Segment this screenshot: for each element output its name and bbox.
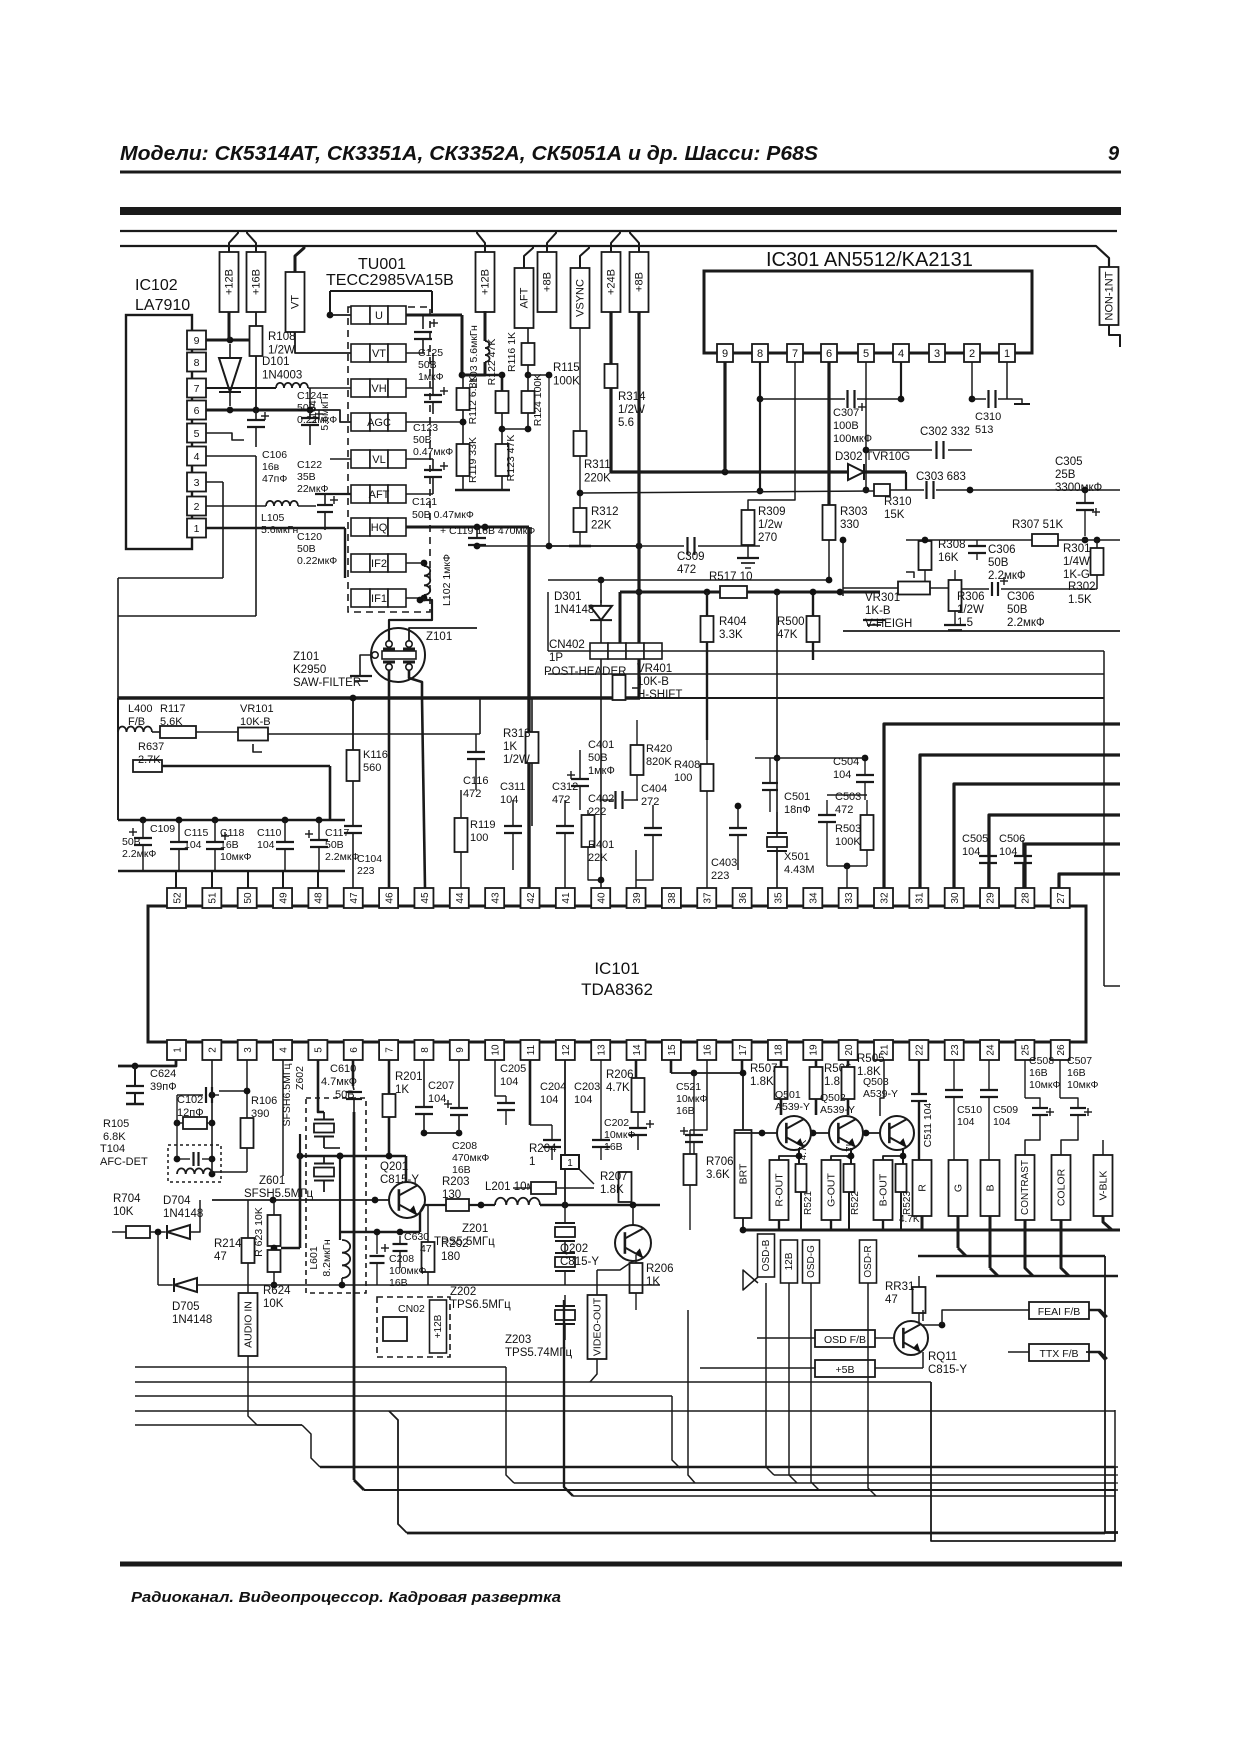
svg-text:1/2W: 1/2W <box>503 754 530 766</box>
svg-text:LA7910: LA7910 <box>135 297 190 314</box>
wire R307 line <box>906 539 1032 541</box>
resistor R706 <box>684 1154 697 1185</box>
IC101 bottom pin 24 <box>980 1040 999 1060</box>
wire osd row <box>742 1229 1118 1232</box>
wire IC102 pin2 <box>206 505 266 507</box>
svg-text:35B: 35B <box>297 471 316 483</box>
svg-text:C104: C104 <box>357 853 382 865</box>
wire AGC row out <box>406 421 463 423</box>
wire IC301 pin7 drop <box>748 362 795 510</box>
IC101 bottom pin 18 <box>768 1040 787 1060</box>
svg-text:R123 47K: R123 47K <box>505 435 517 482</box>
svg-text:C122: C122 <box>297 459 322 471</box>
svg-text:C510: C510 <box>957 1104 982 1116</box>
svg-text:1/2w: 1/2w <box>758 519 783 531</box>
svg-text:R704: R704 <box>113 1193 141 1205</box>
svg-text:R637: R637 <box>138 741 164 753</box>
net OSD-R <box>860 1240 877 1283</box>
capacitor C521 <box>693 1073 695 1135</box>
capacitor C203 <box>600 1060 602 1140</box>
svg-text:513: 513 <box>975 424 993 436</box>
IC101 bottom pin 7 <box>379 1040 398 1060</box>
wire R517 rail <box>620 591 720 594</box>
pot VR401 <box>613 675 626 700</box>
IC101 bottom pin 6 <box>344 1040 363 1060</box>
svg-text:104: 104 <box>500 1076 518 1088</box>
svg-text:6: 6 <box>826 348 832 360</box>
resistor R105 <box>183 1117 207 1129</box>
inductor L104 <box>276 383 308 388</box>
svg-text:BRT: BRT <box>737 1163 749 1184</box>
svg-text:47: 47 <box>420 1243 432 1255</box>
wire IC102 pin7 <box>206 387 276 389</box>
resistor R401 <box>582 815 595 847</box>
wire C208 rail <box>424 1132 459 1134</box>
svg-text:2: 2 <box>969 348 975 360</box>
wire riser AFT <box>524 246 533 268</box>
IC101 top pin 40 <box>591 888 610 908</box>
svg-text:4: 4 <box>898 348 904 360</box>
svg-text:C307: C307 <box>833 407 859 419</box>
resistor R122 <box>496 391 509 413</box>
wire tuner thick down <box>527 527 530 888</box>
net +5B <box>815 1360 875 1377</box>
svg-text:10K-B: 10K-B <box>240 716 271 728</box>
wire RQ11 out <box>922 1352 924 1368</box>
IC101 top pin 27 <box>1051 888 1070 908</box>
svg-text:3: 3 <box>194 477 200 489</box>
capacitor C311 <box>512 800 514 826</box>
svg-text:10мкФ: 10мкФ <box>604 1129 635 1141</box>
wire G jog <box>958 1248 966 1256</box>
wire staircase 3 <box>954 784 1120 888</box>
crystal Z602a <box>314 1119 334 1121</box>
svg-text:C309: C309 <box>677 551 705 563</box>
svg-text:1: 1 <box>172 1047 183 1053</box>
svg-text:IF2: IF2 <box>371 558 387 570</box>
svg-text:33: 33 <box>844 892 855 904</box>
transistor RQ11 <box>894 1321 928 1355</box>
wire bundle v2 <box>564 1300 573 1496</box>
wire Z101 down b <box>409 670 422 698</box>
capacitor C504 <box>864 758 866 775</box>
wire pin5 drop <box>318 1060 324 1112</box>
IC101 top pin 42 <box>521 888 540 908</box>
IC101 top pin 30 <box>945 888 964 908</box>
IC101 top pin 52 <box>167 888 186 908</box>
wire C119 rail <box>477 545 640 547</box>
svg-text:104: 104 <box>999 846 1017 858</box>
svg-text:R404: R404 <box>719 616 747 628</box>
svg-text:17: 17 <box>738 1044 749 1056</box>
svg-text:OSD F/B: OSD F/B <box>824 1334 866 1346</box>
svg-text:SFSH5.5МГц: SFSH5.5МГц <box>244 1188 313 1200</box>
capacitor C509 <box>988 1060 990 1090</box>
svg-text:FEAI F/B: FEAI F/B <box>1038 1306 1081 1318</box>
resistor R507 <box>775 1067 788 1099</box>
resistor R408 <box>701 764 714 791</box>
capacitor C624 <box>134 1066 136 1086</box>
wire R203-L201 <box>469 1204 495 1206</box>
svg-text:R207: R207 <box>600 1171 628 1183</box>
filter Z101 <box>371 628 425 682</box>
svg-text:AUDIO IN: AUDIO IN <box>242 1301 254 1348</box>
svg-text:+12B: +12B <box>224 269 236 295</box>
svg-text:1: 1 <box>194 523 200 535</box>
svg-text:10мкФ: 10мкФ <box>220 851 251 863</box>
svg-text:A539-Y: A539-Y <box>820 1104 855 1116</box>
svg-text:50B: 50B <box>1007 604 1028 616</box>
svg-text:1.8K: 1.8K <box>750 1076 774 1088</box>
wire AFT row out <box>406 493 433 495</box>
svg-text:R314: R314 <box>618 391 646 403</box>
svg-text:50B: 50B <box>122 836 141 848</box>
wire drop x672 <box>672 1396 680 1468</box>
bottom thick rule <box>120 1562 1122 1567</box>
svg-text:2: 2 <box>194 501 200 513</box>
capacitor C508 <box>1024 1060 1026 1098</box>
IC101 top pin 28 <box>1015 888 1034 908</box>
svg-text:OSD-G: OSD-G <box>806 1245 817 1278</box>
IC102 pin 9 <box>187 331 206 350</box>
svg-text:45: 45 <box>420 892 431 904</box>
capacitor C102 <box>177 1094 203 1096</box>
resistor R207 <box>619 1172 632 1202</box>
wire pin6 drop <box>352 1060 355 1086</box>
svg-text:1P: 1P <box>549 652 563 664</box>
IC101 top pin 49 <box>273 888 292 908</box>
svg-text:4: 4 <box>278 1047 289 1053</box>
svg-text:C521: C521 <box>676 1081 701 1093</box>
IC301 pin 8 <box>752 344 768 362</box>
svg-text:OSD-B: OSD-B <box>761 1239 772 1271</box>
svg-text:X501: X501 <box>784 851 810 863</box>
IC101 top pin 35 <box>768 888 787 908</box>
capacitor C503 <box>826 800 828 815</box>
resistor R119-33K <box>457 444 470 476</box>
IC101 bottom pin 17 <box>733 1040 752 1060</box>
wire pin13 drop <box>635 1060 638 1078</box>
svg-text:C123: C123 <box>413 422 438 434</box>
wire CN402 drop pin40 <box>600 659 602 888</box>
wire 12B drop <box>789 1283 797 1483</box>
wire R637 right <box>162 765 330 768</box>
net +12B cn02 <box>430 1300 447 1353</box>
svg-text:5: 5 <box>194 428 200 440</box>
tuner port VH <box>351 379 370 397</box>
svg-text:272: 272 <box>641 796 659 808</box>
svg-text:C610: C610 <box>330 1063 356 1075</box>
resistor R311 <box>574 431 587 456</box>
svg-text:50: 50 <box>243 892 254 904</box>
capacitor C208b <box>376 1232 378 1254</box>
svg-text:472: 472 <box>835 804 853 816</box>
svg-text:28: 28 <box>1021 892 1032 904</box>
IC101 bottom pin 10 <box>485 1040 504 1060</box>
svg-text:R522: R522 <box>850 1191 861 1215</box>
resistor R637 <box>133 760 162 772</box>
resistor R214 <box>242 1238 255 1263</box>
wire D301 rail <box>548 579 829 581</box>
IC101 bottom pin 2 <box>202 1040 221 1060</box>
wire pin42 col <box>564 870 566 888</box>
IC101 bottom pin 4 <box>273 1040 292 1060</box>
resistor R506 <box>810 1067 823 1099</box>
svg-text:8: 8 <box>194 357 200 369</box>
wire bundle h4 <box>135 1410 1115 1412</box>
resistor R517 <box>720 586 747 598</box>
capacitor C117 <box>318 820 320 840</box>
svg-text:3: 3 <box>243 1047 254 1053</box>
wire riser +12B tuner <box>477 231 485 252</box>
svg-text:R116 1K: R116 1K <box>506 332 518 372</box>
svg-text:C121: C121 <box>412 496 437 508</box>
svg-text:VT: VT <box>290 295 302 309</box>
svg-text:+5B: +5B <box>836 1364 855 1376</box>
wire Z101 gnd <box>360 655 372 676</box>
svg-text:Z201: Z201 <box>462 1223 488 1235</box>
svg-text:D705: D705 <box>172 1301 200 1313</box>
svg-text:13: 13 <box>597 1044 608 1056</box>
wire riser +16B <box>247 231 256 252</box>
svg-text:2.2мкФ: 2.2мкФ <box>988 570 1026 582</box>
IC102 pin 7 <box>187 379 206 398</box>
crystal Z201 <box>555 1222 575 1224</box>
svg-text:104: 104 <box>962 846 980 858</box>
resistor R301 <box>1091 548 1104 575</box>
svg-text:B: B <box>984 1184 996 1191</box>
header rule <box>120 171 1121 174</box>
wire riser +8B <box>547 231 556 252</box>
svg-text:50B: 50B <box>297 402 316 414</box>
supply +24B <box>602 252 621 312</box>
wire riser VSYNC <box>580 246 589 268</box>
wire loop y1541 <box>931 1382 1115 1541</box>
svg-text:7: 7 <box>792 348 798 360</box>
capacitor C104 <box>352 781 354 826</box>
wire IC102 pin3 <box>206 481 223 483</box>
svg-text:1: 1 <box>1004 348 1010 360</box>
svg-text:6.8K: 6.8K <box>103 1131 126 1143</box>
diode D705 <box>158 1284 172 1286</box>
wire IC102 pin6 <box>206 409 310 412</box>
svg-text:2.2мкФ: 2.2мкФ <box>122 848 156 860</box>
svg-text:560: 560 <box>363 762 381 774</box>
svg-text:8.2мкГн: 8.2мкГн <box>321 1239 333 1277</box>
svg-text:9: 9 <box>722 348 728 360</box>
svg-text:C102: C102 <box>177 1094 203 1106</box>
svg-text:29: 29 <box>985 892 996 904</box>
wire COLOR jog <box>1061 1220 1069 1276</box>
IC102 pin 6 <box>187 401 206 420</box>
svg-text:C511 104: C511 104 <box>922 1102 934 1147</box>
svg-text:330: 330 <box>840 519 859 531</box>
op-amp IC301 <box>704 271 1032 353</box>
IC101 bottom pin 22 <box>909 1040 928 1060</box>
wire R106 bottom <box>212 1171 247 1173</box>
svg-text:100B: 100B <box>833 420 859 432</box>
resistor R404 <box>701 616 714 642</box>
svg-text:C208: C208 <box>452 1140 477 1152</box>
net VIDEO-OUT <box>588 1295 607 1359</box>
resistor R314 <box>605 364 618 388</box>
IC102 pin 4 <box>187 447 206 466</box>
svg-text:4.43M: 4.43M <box>784 864 815 876</box>
resistor R704 <box>126 1226 150 1238</box>
capacitor C630 <box>399 1236 401 1244</box>
wire audio drop <box>248 1356 302 1425</box>
svg-text:104: 104 <box>500 794 518 806</box>
svg-text:VR101: VR101 <box>240 703 274 715</box>
wire Q503 out <box>883 1156 903 1160</box>
wire HQ row out <box>406 526 529 529</box>
svg-text:C204: C204 <box>540 1081 566 1093</box>
svg-text:SFSH6.5МГц: SFSH6.5МГц <box>281 1063 293 1126</box>
net TTX F/B <box>1029 1344 1089 1361</box>
wire line 1256 <box>918 1255 1105 1258</box>
svg-text:8: 8 <box>757 348 763 360</box>
net FEAI F/B <box>1029 1302 1089 1319</box>
IC301 pin 4 <box>893 344 909 362</box>
wire caps bottom rail <box>118 870 345 873</box>
resistor R500 <box>807 616 820 642</box>
wire NON-1NT stub <box>1109 325 1120 347</box>
wire C303 line <box>580 491 874 493</box>
resistor R116 <box>522 343 535 365</box>
svg-text:R119 33K: R119 33K <box>467 437 479 483</box>
svg-text:2.2мкФ: 2.2мкФ <box>1007 617 1045 629</box>
svg-text:43: 43 <box>490 892 501 904</box>
svg-text:16B: 16B <box>676 1105 695 1117</box>
svg-text:Z203: Z203 <box>505 1334 531 1346</box>
wire pin35 col <box>776 592 778 888</box>
IC101 bottom pin 11 <box>521 1040 540 1060</box>
svg-text:C815-Y: C815-Y <box>560 1256 599 1268</box>
wire OSD-G drop <box>811 1283 819 1490</box>
capacitor C404 <box>652 805 654 828</box>
svg-text:30: 30 <box>950 892 961 904</box>
wire IF1 row out <box>406 597 424 599</box>
supply AFT <box>515 268 534 328</box>
svg-text:3.6K: 3.6K <box>706 1169 730 1181</box>
resistor R505 <box>842 1067 855 1099</box>
capacitor C116 <box>475 734 477 752</box>
connector CN02 box <box>377 1297 450 1357</box>
svg-text:4.7мкФ: 4.7мкФ <box>321 1076 357 1088</box>
svg-text:5: 5 <box>314 1047 325 1053</box>
svg-text:4.7K: 4.7K <box>606 1082 630 1094</box>
wire riser VT <box>295 246 304 272</box>
wire +8B2 stem <box>637 312 640 698</box>
IC301 pin 3 <box>929 344 945 362</box>
IC101 top pin 43 <box>485 888 504 908</box>
svg-text:NON-1NT: NON-1NT <box>1104 271 1116 320</box>
wire CONTRAST jog <box>1025 1220 1033 1276</box>
svg-text:Q201: Q201 <box>380 1161 408 1173</box>
svg-text:C815-Y: C815-Y <box>928 1364 967 1376</box>
svg-text:1.8K: 1.8K <box>600 1184 624 1196</box>
svg-text:2: 2 <box>208 1047 219 1053</box>
svg-text:16K: 16K <box>938 552 959 564</box>
IC101 top pin 32 <box>874 888 893 908</box>
svg-text:RQ11: RQ11 <box>928 1351 957 1363</box>
svg-text:34: 34 <box>809 892 820 904</box>
svg-text:11: 11 <box>526 1044 537 1055</box>
svg-text:G-OUT: G-OUT <box>825 1173 837 1207</box>
IC101 top pin 33 <box>839 888 858 908</box>
inductor L400 <box>118 727 152 732</box>
svg-text:104: 104 <box>428 1093 446 1105</box>
svg-text:R302: R302 <box>1068 581 1096 593</box>
wire riser +8B 2 <box>630 231 639 252</box>
svg-text:R517 10: R517 10 <box>709 571 752 583</box>
wire C610 <box>353 1086 354 1090</box>
capacitor C303 <box>890 489 924 491</box>
svg-text:F/B: F/B <box>128 716 145 728</box>
net AUDIO IN <box>239 1293 258 1356</box>
wire long line 674 <box>548 673 1104 675</box>
svg-text:V-HEIGH: V-HEIGH <box>865 618 912 630</box>
svg-text:22мкФ: 22мкФ <box>297 483 328 495</box>
tuner port VL <box>351 450 370 468</box>
svg-text:100K: 100K <box>835 836 861 848</box>
wire R-col tops <box>778 1220 780 1230</box>
wire Q501 out <box>779 1156 799 1160</box>
svg-text:25: 25 <box>1021 1044 1032 1056</box>
IC101 top pin 51 <box>202 888 221 908</box>
IC102 pin 5 <box>187 424 206 443</box>
svg-text:SAW-FILTER: SAW-FILTER <box>293 677 361 689</box>
svg-text:C120: C120 <box>297 531 322 543</box>
svg-text:R408: R408 <box>674 759 700 771</box>
svg-text:CN02: CN02 <box>398 1303 425 1315</box>
capacitor C501 <box>755 757 777 759</box>
svg-text:472: 472 <box>677 564 696 576</box>
svg-text:100: 100 <box>470 832 488 844</box>
svg-text:220K: 220K <box>584 473 611 485</box>
svg-text:42: 42 <box>526 892 537 904</box>
svg-text:1N4148: 1N4148 <box>554 604 594 616</box>
crystal Z203 <box>555 1305 575 1307</box>
svg-text:50B: 50B <box>325 839 344 851</box>
IC101 top pin 31 <box>909 888 928 908</box>
svg-text:1K: 1K <box>395 1084 409 1096</box>
wire IC301 pin4 drop <box>900 362 902 399</box>
svg-text:C509: C509 <box>993 1104 1018 1116</box>
svg-text:15: 15 <box>667 1044 678 1056</box>
resistor R203 <box>446 1199 469 1211</box>
supply +8B 2 <box>630 252 649 312</box>
svg-text:R112 6.8K: R112 6.8K <box>467 376 479 425</box>
svg-text:TPS5.74МГц: TPS5.74МГц <box>505 1347 573 1359</box>
diode D704 <box>150 1231 165 1233</box>
IC101 top pin 37 <box>697 888 716 908</box>
resistor R522 <box>844 1164 855 1192</box>
svg-text:C311: C311 <box>500 781 525 793</box>
svg-text:223: 223 <box>711 870 729 882</box>
svg-text:C208: C208 <box>389 1253 414 1265</box>
transistor Q501 <box>777 1116 811 1150</box>
svg-text:VR301: VR301 <box>865 592 900 604</box>
wire VH row out <box>406 387 433 389</box>
resistor R623 <box>268 1215 281 1246</box>
capacitor C126 <box>406 352 425 354</box>
capacitor C305 <box>1084 490 1086 503</box>
svg-text:23: 23 <box>950 1044 961 1056</box>
wire FEAI link <box>1089 1310 1105 1318</box>
svg-text:R106: R106 <box>251 1095 277 1107</box>
svg-text:Модели: СК5314АТ, СК3351А, СК3: Модели: СК5314АТ, СК3351А, СК3352А, СК50… <box>120 143 819 165</box>
